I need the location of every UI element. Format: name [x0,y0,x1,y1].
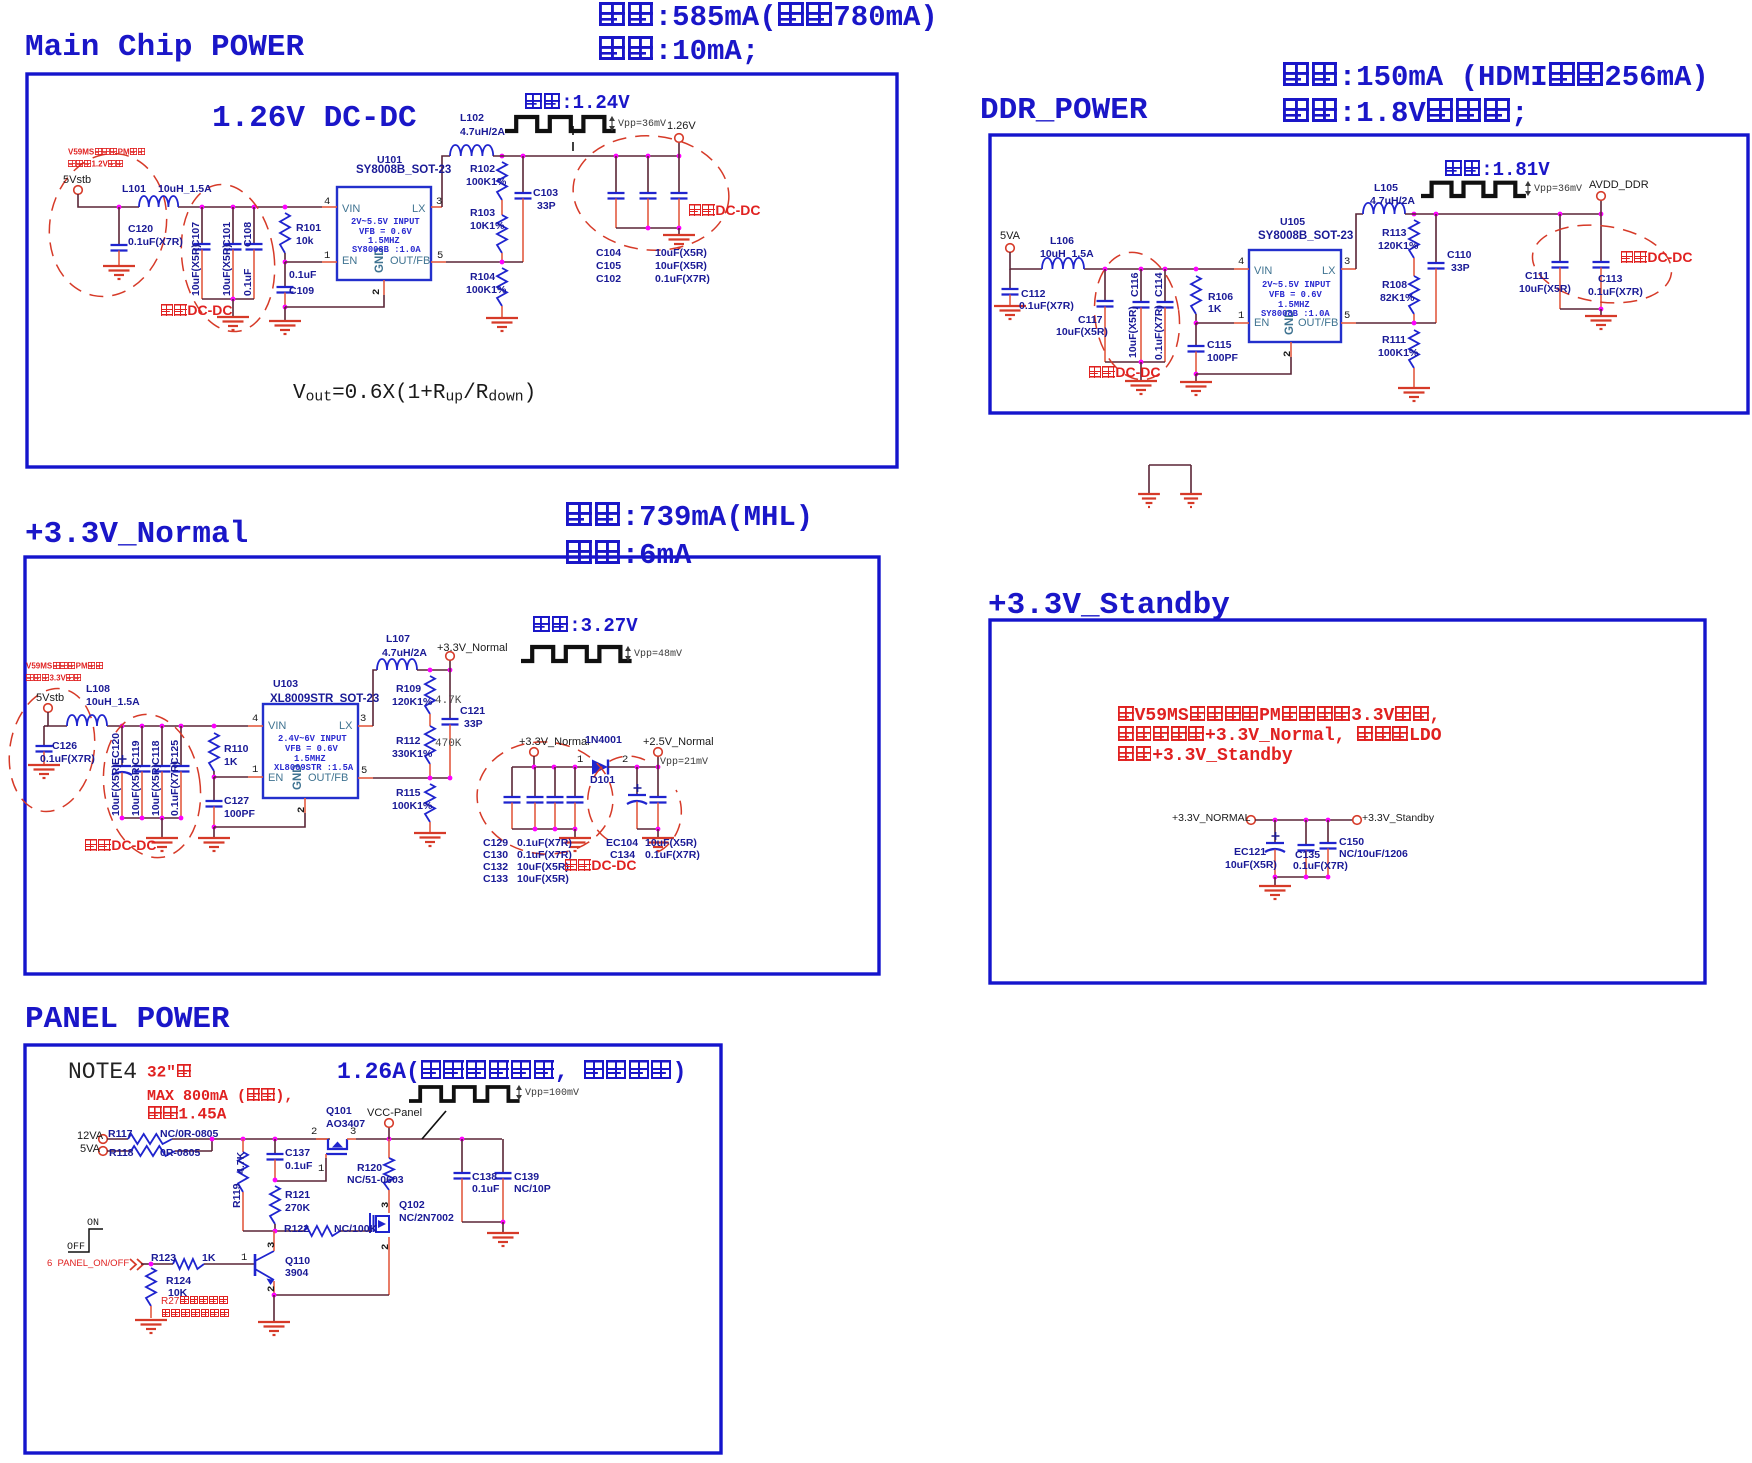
op-amp U105 regulator [1249,250,1341,342]
ic text freq U105 [1278,301,1310,310]
pin number 2 U103 [297,807,308,813]
value C115 [1207,353,1238,364]
value C112 [1019,301,1074,312]
wire FB node A [446,261,523,263]
red note inrush [147,1106,226,1123]
wire EN node [283,260,288,265]
label R117 [108,1129,133,1140]
value C126 [40,754,95,765]
label Q110 [285,1256,310,1267]
wire R118 up to rail [211,1139,213,1151]
pin name GND U105 [1284,309,1296,335]
capacitor C129 [511,767,513,797]
label 1N4001 [585,735,622,746]
value C113 [1588,287,1643,298]
title DDR_POWER [980,95,1147,128]
resistor R103 [501,200,503,215]
pin name VIN [342,204,360,216]
value C125 [170,761,181,816]
wire AVDD_DDR rail [1412,212,1417,217]
pin number 3 Q102 [381,1202,392,1208]
label C137 [285,1148,310,1159]
square wave panel [409,1087,520,1101]
wire LX to L107 [373,670,377,726]
pin number 1 Q110 [241,1253,247,1264]
red note close to DC-DC output [688,203,760,218]
node 5Vstb terminal C [44,704,53,713]
pin stub 4 VIN [322,206,337,208]
gray changed value 470K [435,739,461,751]
red paragraph line3 [1117,746,1293,766]
wire caps bottom rail C3 [637,828,658,830]
label C132 [483,862,508,873]
red paragraph line2 [1117,726,1442,746]
label R113 [1382,228,1407,239]
label C103 [533,188,558,199]
wire FB node C [373,777,450,779]
capacitor C114 [1163,267,1168,272]
annotation working 739mA [565,502,813,533]
ic text input range U105 [1262,281,1331,290]
label C111 [1525,271,1549,282]
vpp 36mV B [1534,185,1582,196]
capacitor C116 [1139,267,1144,272]
ic text input range U103 [278,735,347,744]
red dashed arc EC104 [588,756,645,842]
ic text freq [368,237,400,246]
capacitor C105 [646,154,651,159]
ic text vfb U105 [1269,291,1322,300]
value C120 [128,237,183,248]
label R111 [1382,335,1406,346]
red note 32 inch panel [147,1064,191,1081]
label R123 [151,1253,176,1264]
pin stub 2 GND [383,280,385,295]
label L108 [86,684,110,695]
pin number 3 Q110 [267,1242,278,1248]
red dashed ellipse around 5Vstb [36,143,179,308]
node AVDD_DDR terminal [1600,201,1602,214]
pin number 5 U105 [1344,311,1350,322]
wire FB node B [1356,322,1436,324]
value C114 [1154,305,1165,360]
value L105 [1370,196,1415,207]
pin number 1 U105 [1238,311,1244,322]
junction gate node [273,1178,278,1183]
ic text input range [351,218,420,227]
value U103 [270,693,379,705]
junction R124 [149,1262,154,1267]
inductor L108 [67,715,107,726]
capacitor C133 [574,767,576,797]
pin number 2 D101 [622,755,628,766]
junction C120 [117,205,122,210]
pin name EN [342,256,357,268]
pin stub 2 GND U105 [1290,342,1292,357]
label C138 [472,1172,497,1183]
vpp 36mV [618,120,666,131]
title +3.3V_Normal [25,519,248,552]
label R108 [1382,280,1407,291]
capacitor C137 [273,1137,278,1142]
diagonal annotation line [422,1111,446,1139]
node 5Vstb terminal [74,186,83,195]
label C120 [128,224,153,235]
label C102 [596,274,621,285]
value L101 [158,184,212,195]
pin number 1 Q101 [318,1164,324,1175]
wire output rail 1.26V [500,154,505,159]
capacitor C109 [284,262,286,287]
pin stub 4 VIN U105 [1234,268,1249,270]
red paragraph line1 [1117,706,1440,726]
resistor R123 [173,1259,204,1269]
net label AVDD_DDR [1589,180,1649,192]
capacitor EC104 polarized [636,767,638,795]
capacitor EC120 polarized [120,724,125,729]
transistor Q101 AO3407 PMOS [316,1138,328,1140]
pin number 4 U103 [252,714,258,725]
wire Q101 gate [325,1154,327,1158]
pin number 4 [324,197,330,208]
value R110 [224,757,237,768]
ic text current U103 [274,764,353,773]
pin number 3 Q101 [350,1127,356,1138]
wire Q110 collector [273,1231,275,1251]
wire LX to L102 [442,156,450,207]
resistor R121 [270,1186,280,1224]
red note C line2 [26,674,82,683]
node +2.5V_Normal terminal [657,756,659,767]
value C117 [1056,327,1108,338]
gray changed value 4.7K [435,696,461,708]
pin name EN U103 [268,773,283,785]
label C150 [1339,837,1364,848]
label C104 [596,248,621,259]
label C133 [483,874,508,885]
label C117 [1078,315,1103,326]
label C125 [170,740,181,765]
wire 5VA to VIN rail [1010,252,1042,269]
value R101 [296,236,314,247]
pin stub 3 LX U105 [1341,268,1356,270]
inductor L101 [139,196,178,207]
capacitor C103 [522,156,524,193]
resistor R109 [425,676,435,714]
label EC104 [606,838,638,849]
label U105 [1280,217,1305,228]
pin stub 1 EN U105 [1234,322,1249,324]
value Q110 [285,1268,308,1279]
net label 5VA [1000,231,1020,243]
value R103 [470,221,504,232]
pin name VIN U103 [268,721,286,733]
red note pulldown line1 [161,1296,228,1307]
wire standby bottom rail [1275,876,1328,878]
pin number 2 [372,289,383,295]
title Main Chip POWER [25,32,304,65]
label R120 [357,1163,382,1174]
resistor R124 [146,1268,156,1306]
inductor L102 [450,145,493,156]
label L106 [1050,236,1074,247]
label R121 [285,1190,310,1201]
pin stub 3 LX [431,206,442,208]
label L107 [386,634,410,645]
pin stub 1 EN U103 [248,776,263,778]
ground under R104 [486,317,518,319]
resistor R110 [212,724,217,729]
red dashed ellipse near DC-DC cluster A [172,178,284,337]
label OFF [67,1243,85,1254]
red note line2 [68,160,124,169]
pin number 1 [324,251,330,262]
label R104 [470,272,495,283]
net label VCC-Panel [367,1108,422,1120]
ground under R115 [414,832,446,834]
red note pulldown line2 [161,1309,230,1320]
transistor Q102 NC/2N7002 NMOS [388,1196,390,1213]
inductor L105 [1363,203,1405,214]
node VCC-Panel terminal [388,1127,390,1139]
red note close to DC-DC output B [1620,250,1692,265]
capacitor C132 [554,767,556,797]
capacitor C110 [1435,214,1437,263]
label R118 [109,1148,134,1159]
label R112 [396,736,421,747]
wire to R123 [141,1263,151,1265]
wire cluster bottom C [122,817,181,819]
capacitor C104 [614,154,619,159]
annotation standby 6mA [565,540,691,571]
label C114 [1154,272,1165,297]
capacitor C107 [200,205,205,210]
red dashed ellipse caps C2 [472,736,617,859]
value R102 [466,177,506,188]
vpp 100mV [525,1089,579,1100]
annotation 1.26A [337,1060,686,1084]
vpp 48mV [634,650,682,661]
label U103 [273,679,298,690]
resistor R106 [1194,267,1199,272]
pin name LX U105 [1322,266,1335,278]
red dashed ellipse 5Vstb C [0,682,104,819]
label R106 [1208,292,1233,303]
wire Q102 source down [388,1237,390,1295]
wire caps bottom rail C2 [512,828,575,830]
inductor L107 [377,659,417,670]
label Q102 [399,1200,425,1211]
label C129 [483,838,508,849]
section box +3.3V_Normal [25,557,879,974]
value L108 [86,697,140,708]
label C113 [1598,274,1623,285]
measured 1.24V annotation [505,117,616,131]
ground under R111 [1398,387,1430,389]
net label 5VA E [80,1144,100,1156]
measured 1.24V [524,93,630,114]
value R119 [236,1152,247,1174]
net label 1.26V [667,121,696,133]
value C121 [464,719,483,730]
value EC120 [111,764,122,816]
measured 1.81V [1444,160,1550,181]
net label +3.3V_Standby D [1362,813,1434,824]
red note max current [147,1088,293,1105]
value R108 [1380,293,1414,304]
value R111 [1378,348,1418,359]
wire +3.3V node to diode [533,756,535,767]
capacitor C130 [534,767,536,797]
value R121 [285,1203,310,1214]
net label +3.3V_NORMAL D [1172,813,1251,824]
value C137 [285,1161,312,1172]
capacitor C117 [1103,267,1108,272]
value C135 [1293,861,1348,872]
value C139 [514,1184,551,1195]
capacitor C150 [1327,820,1329,843]
wire diode to +2.5V [608,766,658,768]
capacitor C125 [179,724,184,729]
ON OFF step symbol [68,1229,103,1252]
capacitor C121 [449,670,451,719]
capacitor C134 [657,767,659,797]
wire standby rail [1255,819,1353,821]
value L102 [460,127,505,138]
label EC121 [1234,847,1266,858]
pin stub 5 OUT/FB [431,261,446,263]
net PANEL_ON/OFF red label [130,1259,143,1270]
wire GND pin to C109 [283,305,288,310]
ic text current U105 [1261,310,1330,319]
value Q101 [326,1119,365,1130]
value R123 [202,1253,215,1264]
title PANEL POWER [25,1004,230,1037]
red note close to DC-DC [160,303,232,318]
label Q101 [326,1106,352,1117]
value R113 [1378,241,1418,252]
value C150 [1339,849,1408,860]
resistor R102 [497,162,507,200]
pin name GND U103 [292,764,304,790]
title +3.3V_Standby [988,590,1230,623]
value L106 [1040,249,1094,260]
pin number 2 Q110 [267,1286,278,1292]
label R115 [396,788,421,799]
value C104 [655,248,707,259]
resistor R122 [304,1226,340,1236]
ic text freq U103 [294,755,326,764]
net label 12VA [77,1131,103,1143]
label ON [87,1219,99,1230]
pin number 5 U103 [361,766,367,777]
diode D101 1N4001 [592,760,608,775]
capacitor C139 [502,1139,504,1173]
pin stub 1 EN [322,261,337,263]
pin name OUT/FB U103 [308,773,348,785]
value C134 [645,850,700,861]
red note close to DC-DC B [1088,365,1160,380]
pin name GND [374,247,386,273]
node +3.3V_NORMAL terminal D [1247,816,1256,825]
value C127 [224,809,255,820]
value R118 [160,1148,200,1159]
label R119 [232,1183,243,1208]
node +3.3V_Standby terminal D [1353,816,1362,825]
pin stub 3 LX U103 [358,725,373,727]
pin number 3 U103 [360,714,366,725]
op-amp U103 regulator [263,704,358,798]
resistor R118 [107,1150,131,1152]
dashed connector line A [572,126,574,155]
label 1.26V DC-DC [212,103,417,136]
value EC121 [1225,860,1277,871]
value U105 [1258,230,1353,242]
label C121 [460,706,485,717]
net label PANEL_ON/OFF [47,1259,129,1269]
value L107 [382,648,427,659]
capacitor EC121 polarized [1274,820,1276,843]
annotation working current 585mA [598,2,938,33]
label C126 [52,741,77,752]
wire 5Vstb to VIN rail [78,194,139,207]
node 5VA terminal E [99,1147,108,1156]
label C110 [1447,250,1472,261]
capacitor C101 [231,205,236,210]
capacitor C108 [252,205,257,210]
measured 1.81V annotation [1421,183,1526,196]
label C116 [1130,272,1141,297]
value C130 [517,850,572,861]
pin stub 5 OUT/FB U103 [358,777,373,779]
value C107 [191,244,202,296]
capacitor C126 [43,726,45,746]
value C132 [517,862,569,873]
red dashed ellipse output caps B [1527,217,1676,312]
annotation standby current 10mA [598,36,759,67]
net label 5Vstb C [36,693,64,705]
pin stub 5 OUT/FB U105 [1341,322,1356,324]
value C133 [517,874,569,885]
ground under C102 [678,228,680,235]
label C109 [289,286,314,297]
node +3.3V_Normal terminal [449,660,451,670]
pin number 5 [437,251,443,262]
value R117 [160,1129,218,1140]
label C135 [1295,850,1320,861]
label EC120 [111,733,122,765]
op-amp U101 regulator [337,187,431,280]
ic text vfb U103 [285,745,338,754]
pin name OUT/FB [390,256,430,268]
label C115 [1207,340,1232,351]
value R112 [392,749,432,760]
value R115 [392,801,432,812]
label L105 [1374,183,1398,194]
value C101 [222,244,233,296]
ic text current [352,246,421,255]
pin name VIN U105 [1254,266,1272,278]
value C109 [289,270,316,281]
label R122 [284,1224,309,1235]
capacitor C119 [140,724,145,729]
wire Q110 emitter to ground rail [273,1281,275,1295]
annotation standby 1.8V [1282,98,1528,129]
net label 5Vstb [63,175,91,187]
resistor R111 [1409,330,1419,368]
label R103 [470,208,495,219]
node 1.26V terminal [678,143,680,156]
